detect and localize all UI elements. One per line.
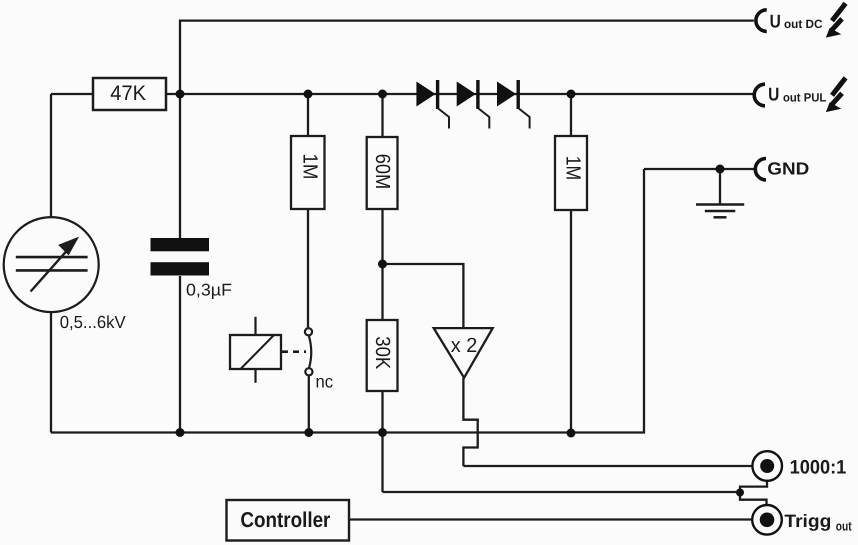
lightning bolt DC: [826, 3, 846, 37]
wire Controller to Trigg: [349, 518, 753, 520]
resistor 1M left: [291, 136, 325, 209]
wire 30K to bus and down: [381, 391, 383, 492]
wire top rail: [180, 21, 754, 94]
wire 1M left top lead: [307, 94, 309, 136]
connector GND: [755, 159, 809, 180]
svg-text:47K: 47K: [110, 82, 146, 105]
svg-text:out PUL: out PUL: [783, 90, 826, 104]
resistor 47K: [93, 78, 166, 110]
svg-text:0,3µF: 0,3µF: [186, 281, 232, 300]
svg-text:Controller: Controller: [240, 508, 331, 532]
resistor 60M: [367, 137, 398, 209]
diode D2: [457, 80, 490, 129]
wire left vertical lower: [50, 312, 52, 433]
wire 60M to node A: [381, 209, 383, 320]
ground: [696, 169, 744, 217]
svg-text:1M: 1M: [562, 156, 585, 181]
switch nc: [305, 328, 333, 391]
wire switch to bus: [308, 375, 310, 432]
svg-text:nc: nc: [316, 372, 334, 392]
svg-text:30K: 30K: [371, 336, 394, 369]
resistor 1M right: [555, 136, 587, 210]
relay K1: [230, 317, 306, 383]
op-amp x2: [434, 328, 493, 378]
controller box: [227, 500, 350, 541]
svg-text:1M: 1M: [299, 154, 322, 180]
wire row2 main: [166, 93, 753, 95]
svg-text:60M: 60M: [371, 154, 394, 190]
wire to 1000:1 connector: [463, 465, 752, 467]
wire BNC shield links: [740, 481, 767, 505]
lightning bolt PUL: [826, 78, 846, 112]
svg-text:Trigg: Trigg: [784, 511, 831, 531]
voltage source 0,5...6kV: [4, 217, 126, 332]
connector U out DC: [756, 10, 823, 32]
wire capacitor bottom lead: [179, 276, 181, 433]
svg-text:U: U: [768, 84, 779, 105]
wire right 1M top lead: [570, 94, 572, 136]
svg-text:0,5...6kV: 0,5...6kV: [60, 312, 126, 332]
wire node A to amp input: [383, 264, 464, 328]
wire GND rail: [644, 168, 755, 170]
svg-text:out DC: out DC: [784, 17, 823, 31]
connector 1000:1: [752, 451, 846, 481]
wire right 1M bottom lead: [570, 210, 572, 433]
wire row2 left segment: [51, 93, 93, 95]
svg-text:x 2: x 2: [451, 334, 478, 357]
connector U out PUL: [754, 84, 826, 106]
svg-text:1000:1: 1000:1: [790, 457, 847, 479]
wire capacitor top lead: [179, 94, 181, 238]
connector Trigg out: [752, 505, 852, 535]
node junction dots: [176, 90, 745, 497]
wire 1M left to switch: [307, 209, 309, 328]
resistor 30K: [367, 320, 398, 391]
svg-text:U: U: [770, 10, 781, 31]
wire shield run: [383, 491, 741, 493]
diode D3: [497, 80, 530, 129]
wire amp output jog: [463, 378, 477, 466]
diode D1: [416, 80, 449, 129]
wire left vertical upper: [50, 94, 52, 217]
svg-text:GND: GND: [767, 159, 809, 179]
wire bottom bus: [51, 169, 644, 433]
capacitor 0,3uF: [151, 238, 233, 300]
wire 60M top lead: [381, 94, 383, 137]
svg-text:out: out: [836, 518, 852, 533]
